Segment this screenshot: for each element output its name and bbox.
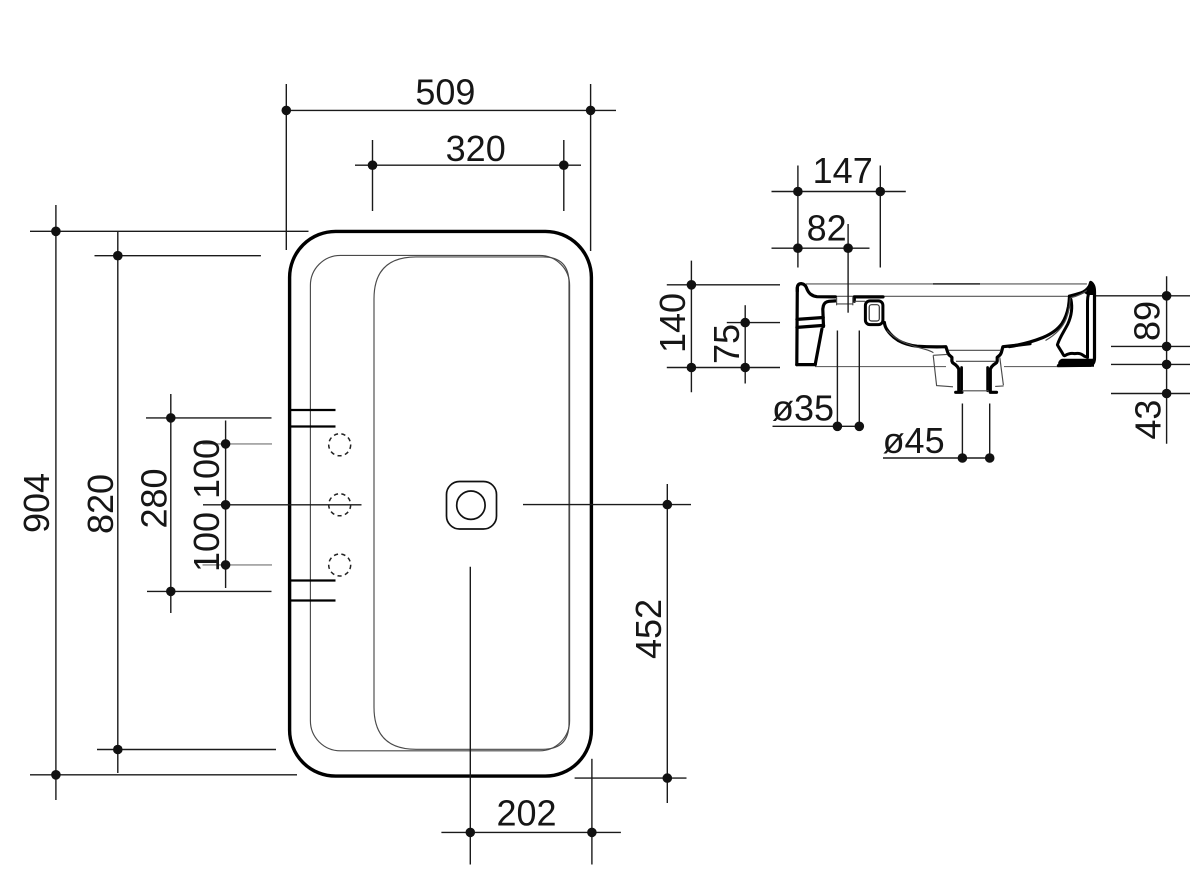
fixing band 1 [797,318,823,320]
dim o45 ext left [961,404,963,459]
dot 89 B [1162,342,1172,352]
ext tube bottom right [1111,393,1190,395]
label 820 [80,474,121,534]
dim 82 ext right / hole center [847,224,849,313]
dot 509 L [282,106,292,116]
dim 320 ext right [563,140,565,211]
dim 452 line [666,484,668,803]
waste cone right thin [995,358,1003,387]
label 452 [628,599,669,659]
bowl right sweep up to rim lip [1010,296,1070,346]
ext waterline right [1096,295,1190,297]
dim 100/100 line [225,421,227,589]
body bottom edge thin left [815,366,946,368]
dim 75 ext top [727,322,780,324]
dot 820 B [113,745,123,755]
dim 820 ext top [95,255,261,257]
dim 452 ext bottom [575,777,687,779]
dot 140 B [687,363,697,373]
dot 904 B [51,770,61,780]
dot 320 R [559,160,569,170]
dot o35 L [833,422,843,432]
dim 147 ext right [879,166,881,268]
bowl edge [374,257,569,749]
waste cone left thin [933,354,953,386]
rim lip thin parallel [1071,291,1087,298]
dim 320 line [355,164,581,166]
dot 820 T [113,251,123,261]
svg-text:ø45: ø45 [883,420,945,461]
dot o45 R [985,453,995,463]
dot 89 T [1162,291,1172,301]
dot 509 R [586,106,596,116]
waste tube bottom thin [962,390,989,392]
dim 904 line [55,205,57,800]
rim lip and outer right contour [1058,282,1094,365]
label 280 [134,468,175,528]
waste outline square [447,482,497,530]
label 89 [1127,301,1168,341]
dot 280 T [166,413,176,423]
dot 75 T [740,318,750,328]
plan dim dots [51,106,672,838]
dot 320 L [368,160,378,170]
dot 100 T [221,439,231,449]
label 100 lower [186,512,227,572]
right foot base fill [1058,359,1094,367]
tap hole wall left thin [836,297,838,305]
dot 100 M [221,500,231,510]
outer wall inner surface [1088,294,1089,358]
dot 82 R [843,243,853,253]
overflow slot inner [869,305,879,321]
waste tube left wall [960,368,963,391]
svg-text:75: 75 [706,324,747,364]
dot 147 L [793,187,803,197]
section dim dots [687,187,1172,463]
left foot bottom [797,363,815,366]
waste tube left foot tick [956,391,962,394]
waste tube right wall [986,368,989,391]
overflow slot outer [865,301,883,325]
dim 147 line [772,191,906,193]
tick mark pair bottom [291,579,336,581]
dashed tap hole top [329,434,351,456]
gray aux line bottom tap hole [203,564,273,566]
dim 82 line [772,247,870,249]
dim 904 ext top [30,230,309,232]
rim cavity wall curve [1057,299,1087,357]
plan dim labels [16,72,669,834]
label 43 [1128,400,1169,440]
gray aux line top tap hole [203,443,273,445]
dot 452 T [663,500,673,510]
label 140 [652,293,693,353]
svg-text:320: 320 [446,128,506,169]
svg-text:100: 100 [186,439,227,499]
rim top edge thick segment [933,283,980,285]
svg-text:509: 509 [415,72,475,113]
dot 43 T [1162,360,1172,370]
centerline through middle tap hole left [203,504,362,506]
svg-text:820: 820 [80,474,121,534]
basin outer rim outline [290,231,592,776]
dim 509 ext left [285,84,287,250]
left wall outer edge [795,288,799,365]
dot 140 T [687,280,697,290]
rear rim waterline thin [835,295,1068,297]
tap hole wall right thin [852,297,854,305]
dot 43 B [1162,389,1172,399]
dot 904 T [51,227,61,237]
centerline through waste right [523,504,691,506]
waste flange inner thin [956,360,996,362]
ext body bottom right [1111,363,1190,365]
dim 140/75 ext bottom [667,367,780,369]
svg-text:904: 904 [16,473,57,533]
waste centerline vertical [469,567,471,865]
dot 452 B [663,773,673,783]
right edge ext vertical [591,759,593,865]
bowl far wall and right step [990,344,1030,392]
dim 820 line [117,232,119,773]
deck underside and inner wall edge [823,301,836,327]
dim o35 ext right [858,331,860,427]
dot 202 L [466,828,476,838]
svg-text:147: 147 [813,150,873,191]
svg-text:82: 82 [807,207,847,248]
dim 820 ext bottom [97,749,276,751]
fixing band 2 [797,325,824,327]
waste hole circle [457,491,485,519]
svg-text:280: 280 [134,468,175,528]
label 75 [706,324,747,364]
dim o45 leader [883,457,991,459]
deck top right of tap hole [854,297,883,301]
svg-text:452: 452 [628,599,669,659]
deck underside thin right of hole [854,300,865,302]
dim 75 line [744,305,746,383]
body bottom edge thin right [1004,366,1058,368]
dim 147 ext left [797,166,799,268]
dot 280 B [166,587,176,597]
dashed tap hole bottom [329,554,351,576]
dim 320 ext left [372,140,374,211]
dot o45 L [958,453,968,463]
dim 140 line [690,261,692,393]
label 100 upper [186,439,227,499]
dim 202 line [441,831,621,833]
label 904 [16,473,57,533]
dim 904 ext bottom [30,774,297,776]
svg-text:89: 89 [1127,301,1168,341]
svg-text:202: 202 [496,793,556,834]
waste tube right foot tick [990,391,996,394]
dim o35 leader [773,425,863,427]
svg-text:ø35: ø35 [772,388,834,429]
left rim peak and deck top [797,284,835,297]
dot 75 B [740,363,750,373]
waste flange top thin [949,349,1001,351]
dim 509 ext right [590,84,592,251]
tap hole bottom thin [837,303,853,305]
dim 509 line [286,109,616,111]
dot 147 R [876,187,886,197]
dot 202 R [587,828,597,838]
basin inner rim edge [310,255,569,750]
svg-text:100: 100 [186,512,227,572]
right shell under-parallel thin [1046,298,1071,341]
dim 280 ext top [146,417,272,419]
ext bowl bottom right [1111,345,1190,347]
dashed tap hole middle [329,494,351,516]
svg-text:43: 43 [1128,400,1169,440]
rim top right corner fill [1084,282,1095,295]
section dim labels [652,150,1169,461]
dim 89/43 line [1166,276,1168,444]
dim 280 line [170,394,172,613]
tick mark pair top [291,409,336,411]
rim top edge thin [806,283,1087,285]
dim o35 ext left [836,331,838,427]
svg-text:140: 140 [652,293,693,353]
dim 280 ext bottom [147,590,272,592]
dot 100 B [221,560,231,570]
bowl near wall curve [884,323,958,392]
dot 82 L [793,243,803,253]
dim o45 ext right [989,404,991,459]
bowl shell under-parallel thin [887,331,933,353]
left foot right slant edge [815,329,822,365]
dim 140 ext top [667,284,780,286]
dot o35 R [855,422,865,432]
